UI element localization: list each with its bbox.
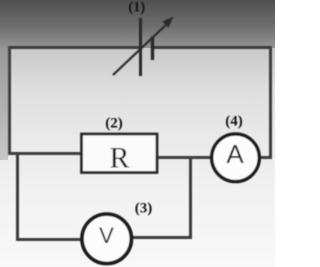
battery B1 short plate <box>151 37 154 61</box>
wire right vertical <box>269 46 272 159</box>
wire voltmeter row left <box>16 238 82 241</box>
battery variable arrow <box>113 22 169 75</box>
voltmeter V circle <box>82 214 131 263</box>
wire voltmeter row right <box>131 236 192 239</box>
svg-text:(2): (2) <box>105 116 123 132</box>
wire resistor to ammeter <box>157 156 213 159</box>
wire left vertical <box>8 46 11 155</box>
svg-text:R: R <box>109 142 129 175</box>
svg-text:(3): (3) <box>135 201 153 217</box>
resistor R box <box>82 134 158 173</box>
wire row to resistor <box>8 152 82 155</box>
svg-text:V: V <box>99 223 114 248</box>
svg-text:(1): (1) <box>128 0 145 16</box>
wire ammeter to right vertical <box>258 156 272 159</box>
svg-text:A: A <box>226 139 244 169</box>
wire top horizontal (right of battery) <box>154 46 272 49</box>
svg-text:(4): (4) <box>225 114 243 130</box>
background upper dark band <box>0 0 275 48</box>
ammeter A circle <box>212 134 260 182</box>
left margin shading <box>0 48 8 160</box>
wire top horizontal (left of battery) <box>8 46 139 49</box>
wire voltmeter branch vertical <box>189 156 192 239</box>
battery B1 long plate <box>139 18 142 76</box>
background lower light area <box>0 48 275 267</box>
wire drop to voltmeter row <box>16 152 19 241</box>
